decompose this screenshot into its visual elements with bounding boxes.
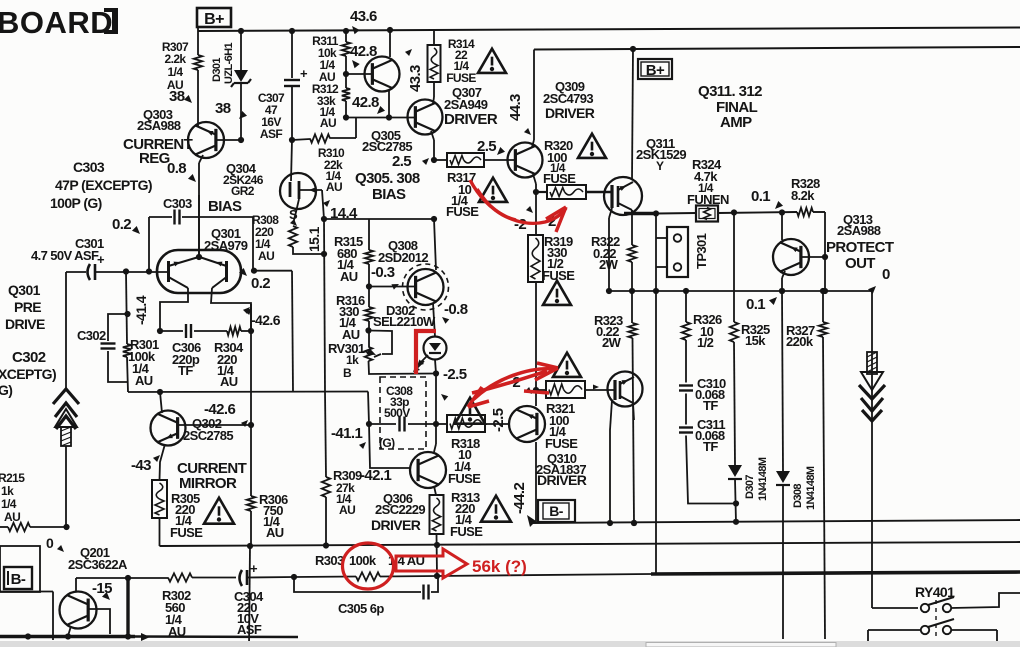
wire bottom thick rail (0, 635, 135, 639)
svg-text:REG: REG (139, 150, 170, 167)
svg-text:D301: D301 (211, 58, 223, 82)
wire Q201 base lead (88, 609, 110, 634)
warning triangle near R321 (553, 353, 581, 377)
fuse resistor R318 (boxed) (447, 415, 485, 432)
svg-text:-42.1: -42.1 (360, 467, 391, 484)
svg-text:(G): (G) (379, 436, 395, 450)
wire Q302 collector from y392 (160, 392, 162, 413)
svg-text:C305 6p: C305 6p (338, 601, 384, 616)
wire Q302 emitter to R305 (160, 444, 166, 480)
svg-text:D307: D307 (744, 475, 756, 499)
svg-text:FUSE: FUSE (170, 525, 203, 540)
svg-text:2SC2229: 2SC2229 (375, 502, 425, 517)
transistor Q302 (151, 411, 186, 446)
capacitor C302 branch (108, 314, 128, 341)
svg-text:0.2: 0.2 (251, 275, 270, 292)
hatched arrow symbol (output, down) (867, 352, 877, 374)
capacitor C310 (679, 384, 693, 386)
svg-text:R303: R303 (315, 553, 344, 568)
svg-text:2SA979: 2SA979 (204, 238, 248, 253)
relay RY401 contact 2 (921, 626, 929, 634)
diode D308 (776, 471, 790, 483)
warning triangle near R319 (543, 281, 571, 305)
svg-text:1N4148M: 1N4148M (757, 457, 769, 501)
wire TP301 stubs (656, 237, 667, 239)
svg-text:C302: C302 (12, 349, 46, 366)
red annotation arrow R317 to R320 (470, 180, 566, 223)
svg-text:FUSE: FUSE (446, 71, 476, 85)
svg-text:2SC2785: 2SC2785 (183, 428, 233, 443)
wire pot to LED node (369, 361, 436, 374)
wire y213 to R324 (657, 212, 696, 215)
wire relay 2 right (951, 629, 997, 631)
resistor R301 (123, 344, 131, 357)
red annotation elbow at D302 (416, 331, 436, 374)
red annotation arrow to R318 triangle (474, 369, 553, 399)
wire R321 row (536, 389, 546, 391)
resistor R327 (819, 322, 827, 337)
capacitor C303 (173, 210, 175, 225)
svg-text:FUSE: FUSE (542, 268, 575, 283)
wire Q309 collector to top rail (532, 140, 534, 147)
svg-text:0.1: 0.1 (746, 296, 765, 313)
wire R326 column (685, 291, 687, 322)
wire D308 column (782, 291, 783, 471)
resistor R322 (628, 245, 636, 262)
resistor R316 (365, 307, 373, 321)
wire R325 column (733, 213, 735, 323)
transistor Q308 (with dashed outline) (403, 264, 449, 310)
resistor R312 (342, 88, 350, 101)
svg-text:1k: 1k (346, 353, 359, 367)
wire Q304 drain column x325 (322, 190, 324, 219)
transistor Q306 (410, 452, 446, 488)
svg-text:2SA988: 2SA988 (137, 118, 181, 133)
svg-text:38: 38 (215, 100, 231, 117)
svg-text:TF: TF (703, 439, 718, 454)
svg-text:BIAS: BIAS (208, 198, 242, 215)
wire R323 top (631, 291, 633, 323)
svg-text:43.6: 43.6 (350, 8, 377, 25)
node B+ (top-left supply) (197, 8, 231, 27)
svg-text:AU: AU (4, 510, 20, 524)
relay RY401 contact 1 (921, 604, 929, 612)
wire output corner x872 (871, 291, 873, 608)
svg-text:2.5: 2.5 (392, 153, 411, 170)
svg-text:AU: AU (342, 327, 360, 342)
wire base row y117 to Q307 (346, 117, 414, 119)
wire Q201 collector up to feedback row (75, 578, 77, 592)
svg-text:AU: AU (220, 374, 238, 389)
resistor R323 (628, 323, 636, 338)
svg-text:DRIVER: DRIVER (545, 105, 595, 121)
svg-text:56k (?): 56k (?) (472, 557, 527, 576)
wire Q307 emitter up to R314 fuse (433, 97, 434, 104)
wire Q305 emitter down to base row (388, 90, 390, 118)
svg-text:2W: 2W (599, 257, 619, 272)
wire Q305 collector to rail (387, 27, 393, 33)
wire R327 down (823, 337, 825, 639)
wire negative feed rail y546 (160, 542, 1020, 546)
zener diode D301 (234, 70, 248, 82)
svg-text:C303: C303 (73, 159, 105, 175)
wire Q307 collector node to R317 (434, 159, 447, 161)
svg-text:TP301: TP301 (694, 233, 709, 269)
wire B+ rail top (198, 28, 1020, 32)
wire Q303 base to zener node (216, 139, 241, 141)
transistor Q304 (FET) (280, 173, 316, 209)
red annotation arrow to R321 triangle (472, 371, 547, 393)
svg-text:-44.2: -44.2 (511, 483, 528, 514)
svg-text:Y: Y (656, 159, 664, 173)
wire R309 to -rail (325, 497, 327, 546)
wire relay 2 left (868, 629, 921, 631)
svg-text:XCEPTG): XCEPTG) (0, 366, 56, 382)
svg-text:2SC3622A: 2SC3622A (68, 557, 128, 572)
transistor Q307 (408, 100, 443, 135)
wire R327 column (822, 291, 824, 322)
node B- (right) (538, 500, 575, 522)
svg-text:2SC4793: 2SC4793 (543, 91, 593, 106)
wire x251 column (250, 304, 252, 496)
wire R307 to Q303 emitter (197, 70, 199, 126)
wire y219 bias top (324, 218, 434, 220)
transistor Q305 (upper of bias pair) (365, 57, 400, 92)
wire C311 to D307 node (686, 436, 736, 504)
wire R305 to -rail (159, 518, 161, 546)
svg-text:DRIVE: DRIVE (5, 316, 45, 332)
wire D308 down (782, 485, 784, 639)
svg-text:4.7 50V ASF: 4.7 50V ASF (31, 248, 99, 263)
wire Q308 base (369, 286, 416, 288)
svg-text:42.8: 42.8 (350, 43, 377, 60)
svg-text:Q311. 312: Q311. 312 (698, 83, 762, 100)
wire R315-R316 (368, 264, 370, 307)
wire Q307 collector down (431, 131, 434, 140)
fuse resistor R321 (boxed) (546, 381, 585, 398)
svg-text:1N4148M: 1N4148M (805, 466, 817, 510)
wire C310 to C311 (685, 394, 687, 425)
wire R215 to node (30, 526, 67, 528)
svg-text:AU: AU (258, 249, 274, 263)
svg-text:Q301: Q301 (8, 282, 41, 298)
svg-text:43.3: 43.3 (407, 65, 424, 92)
resistor R315 (365, 250, 373, 264)
svg-text:FUSE: FUSE (450, 524, 483, 539)
wire R319 down to R321 node (535, 282, 537, 390)
svg-text:TF: TF (178, 363, 193, 378)
svg-text:OUT: OUT (845, 255, 875, 272)
svg-text:2.5: 2.5 (477, 138, 496, 155)
warning triangle near R318 (455, 398, 485, 424)
wire R320 to Q311 gate (586, 191, 611, 194)
fuse resistor R314 (boxed) (433, 29, 435, 45)
svg-text:-41.1: -41.1 (331, 425, 362, 442)
svg-text:AU: AU (339, 503, 355, 517)
wire input node down (65, 272, 67, 390)
wire Q303 collector row to R310 (289, 137, 295, 143)
svg-text:0.8: 0.8 (167, 160, 186, 177)
wire C308 row (369, 423, 396, 425)
wire R322 to y291 (631, 262, 633, 291)
svg-text:AU: AU (320, 116, 336, 130)
potentiometer RV301 (365, 347, 373, 361)
wire x127 column (126, 272, 127, 345)
svg-text:+: + (97, 252, 105, 267)
wire +rail second (right) (534, 47, 1020, 50)
svg-text:AU: AU (135, 373, 153, 388)
svg-text:1k: 1k (1, 484, 14, 498)
svg-text:2W: 2W (602, 335, 622, 350)
wire relay 1 to edge (951, 593, 1020, 608)
wire R310 to x356 riser (330, 137, 356, 139)
wire Q309 emitter to R320 node (533, 174, 536, 184)
svg-text:R215: R215 (0, 471, 25, 485)
wire B- rail (527, 515, 536, 527)
wire feedback row (left) (76, 577, 168, 579)
wire y331 loop (160, 330, 183, 332)
resistor R311 (342, 42, 350, 56)
dual transistor Q301 2SA979 (stadium) (157, 250, 241, 293)
diode D307 (728, 465, 742, 477)
svg-text:1/4: 1/4 (168, 65, 184, 79)
svg-text:ASF: ASF (260, 127, 282, 141)
wire x656 below to output rail (655, 291, 657, 574)
dashed box C308 (380, 377, 426, 449)
wire R302 to C304 (192, 577, 236, 579)
svg-text:PROTECT: PROTECT (826, 239, 894, 256)
svg-text:B+: B+ (204, 11, 224, 28)
wire y291 rail (609, 290, 872, 292)
fuse resistor R324 (boxed) (696, 206, 718, 222)
svg-text:C303: C303 (163, 196, 192, 211)
svg-text:FUSE: FUSE (545, 436, 578, 451)
resistor R328 (797, 208, 813, 216)
test point connector TP301 (667, 227, 688, 277)
wire Q306 emitter to R313 (434, 486, 436, 495)
resistor R308 (289, 226, 297, 247)
node B- (left) (4, 567, 32, 589)
connector box around B- (0, 546, 40, 592)
transistor Q311 (MOSFET) (604, 177, 642, 215)
svg-text:AMP: AMP (720, 114, 752, 131)
fuse resistor R317 (boxed) (447, 153, 484, 167)
wire y392 row (128, 391, 368, 394)
red annotation circle around 100k (343, 543, 394, 589)
resistor R302 (168, 573, 192, 581)
relay dashed link (935, 600, 937, 636)
wire Q310 column (535, 390, 537, 406)
wire R317 to Q309 base (484, 159, 516, 161)
capacitor C301 (polarized) (88, 264, 91, 280)
wire x369 down (368, 219, 370, 250)
capacitor C305 loop (294, 577, 421, 592)
wire R325 to D307 (734, 342, 735, 465)
svg-text:FUSE: FUSE (446, 204, 479, 219)
svg-text:B-: B- (11, 571, 26, 588)
svg-text:AU: AU (340, 269, 358, 284)
wire x368 to C308 row (368, 392, 369, 425)
svg-text:AU: AU (326, 180, 342, 194)
wire Q302 base to x251 (177, 424, 251, 426)
svg-text:AU: AU (266, 525, 284, 540)
wire Q311 second lead down (609, 208, 612, 218)
capacitor C308 (398, 417, 400, 432)
capacitor C307 (electrolytic) (284, 79, 300, 81)
svg-text:42.8: 42.8 (352, 94, 379, 111)
svg-text:47P (EXCEPTG): 47P (EXCEPTG) (55, 177, 152, 193)
wire LED to -2.5 node (435, 360, 436, 374)
wire node down to C308 row (435, 374, 437, 425)
warning triangle near R317 (479, 178, 507, 202)
wire R311-R312 node (345, 56, 347, 88)
svg-text:15.1: 15.1 (306, 226, 322, 252)
transistor Q310 (509, 406, 545, 442)
wire output rail thick (651, 572, 1020, 574)
svg-text:TF: TF (703, 398, 718, 413)
svg-text:AU: AU (168, 624, 186, 639)
wire R316 to pot (368, 321, 370, 347)
svg-text:C302: C302 (77, 328, 106, 343)
svg-text:B: B (343, 366, 352, 380)
svg-text:B-: B- (549, 503, 564, 519)
svg-text:220k: 220k (786, 334, 814, 349)
svg-text:Q305. 308: Q305. 308 (355, 170, 420, 187)
wire R322 top (631, 214, 633, 246)
wire stadium left emitter to x160 (160, 288, 188, 331)
wire R312 to lower node (345, 101, 347, 118)
capacitor C311 (679, 426, 693, 428)
hatched arrow symbol (signal source, up) (53, 389, 79, 404)
fuse resistor R319 (boxed) (535, 192, 537, 235)
wire R303 to R313 node (380, 575, 437, 578)
bottom cut-off marks (256, 642, 274, 644)
svg-text:-2.5: -2.5 (443, 366, 467, 383)
wire R318 right (485, 423, 510, 425)
svg-text:2SD2012: 2SD2012 (378, 250, 428, 265)
node B+ (right supply) (630, 46, 636, 52)
wire R323 through Q312 to B- rail (633, 338, 635, 523)
wire Q303 collector down to Q301 (199, 155, 203, 163)
svg-text:38: 38 (169, 88, 185, 105)
svg-text:0: 0 (882, 266, 890, 283)
transistor Q312 (MOSFET final) (608, 372, 643, 407)
wire B+ rail to zener D301 (238, 28, 244, 34)
svg-text:UZL-6H1: UZL-6H1 (223, 42, 235, 84)
capacitor C306 (185, 324, 187, 338)
wire Q313 collector (781, 213, 783, 241)
wire x370 to Q306 base (369, 424, 410, 468)
svg-text:100k: 100k (349, 553, 377, 568)
svg-text:-2.5: -2.5 (490, 408, 507, 432)
wire down to input node (148, 217, 150, 272)
wire D307 to B- rail (735, 479, 736, 523)
resistor R325 (730, 322, 738, 342)
svg-text:FUSE: FUSE (543, 171, 576, 186)
warning triangle near R314 (478, 49, 506, 73)
svg-text:2.2k: 2.2k (165, 52, 187, 66)
wire thick vertical x128 (126, 578, 129, 637)
svg-text:B+: B+ (646, 62, 665, 79)
wire from B+ box down (197, 27, 199, 55)
svg-text:-15: -15 (92, 580, 112, 597)
svg-text:DRIVER: DRIVER (537, 472, 587, 488)
svg-text:BIAS: BIAS (372, 186, 406, 203)
wire R324 to R328 row (718, 212, 797, 213)
wire Q304 source to R308 (296, 199, 299, 212)
wire R328 to corner x825 (813, 211, 825, 213)
svg-text:G): G) (0, 382, 12, 398)
svg-text:2SA988: 2SA988 (837, 223, 881, 238)
wire output to relay (872, 607, 918, 609)
svg-text:D308: D308 (792, 484, 804, 508)
wire zener to Q303 base node (240, 84, 242, 140)
svg-text:FUNEN: FUNEN (687, 192, 729, 207)
transistor Q313 (773, 239, 809, 275)
svg-text:44.3: 44.3 (507, 94, 524, 121)
wire C304 to node x294 (247, 576, 294, 579)
wire x436 from node down to Q308 (434, 219, 436, 270)
wire x656 column (655, 214, 657, 292)
svg-text:0.2: 0.2 (112, 216, 131, 233)
svg-text:0.1: 0.1 (751, 188, 770, 205)
wire rail to C307 (289, 28, 295, 34)
viewer bottom band (0, 641, 1020, 647)
transistor Q201 (60, 592, 97, 629)
svg-text:DRIVER: DRIVER (371, 517, 421, 533)
svg-text:SEL2210W: SEL2210W (373, 314, 436, 329)
wire Q306 collector up (434, 444, 436, 452)
svg-text:8.2k: 8.2k (791, 188, 815, 203)
fuse resistor R305 (boxed) (152, 480, 167, 518)
resistor R307 (194, 55, 202, 70)
svg-text:MIRROR: MIRROR (179, 475, 237, 492)
resistor R309 27k (322, 477, 330, 497)
wire C301 to stadium (95, 271, 167, 273)
svg-text:-0.3: -0.3 (371, 264, 395, 281)
resistor R303 100k (356, 572, 380, 580)
LED D302 (424, 337, 447, 360)
wire B- connector stub (0, 591, 53, 593)
fuse resistor R320 (boxed) (536, 191, 547, 193)
wire R308 to y254 (293, 247, 324, 254)
svg-text:100P (G): 100P (G) (50, 195, 102, 211)
wire R326 to C310 (685, 340, 687, 383)
warning triangle near R320 (578, 134, 606, 158)
wire R313 to -rail and feedback (436, 534, 439, 576)
resistor R326 (682, 322, 690, 340)
wire rail to R311 (343, 28, 349, 34)
wire C303 row (149, 216, 172, 218)
svg-text:2SA949: 2SA949 (444, 97, 488, 112)
wire Q201 emitter to bottom rail (68, 626, 71, 636)
wire base Q305 upper (346, 73, 371, 75)
svg-text:+: + (300, 66, 308, 81)
svg-text:15k: 15k (745, 333, 766, 348)
wire B+ to Q311 drain (632, 49, 633, 180)
svg-text:-41.4: -41.4 (133, 295, 149, 325)
wire Q312 lower lead to B- rail (633, 403, 634, 420)
resistor R310 (310, 134, 330, 142)
svg-text:BOARD: BOARD (0, 5, 113, 40)
resistor R306 (247, 496, 255, 511)
svg-text:1/2: 1/2 (697, 335, 714, 350)
wire R321 to Q312 base (585, 389, 614, 391)
wire R301 to y392 (127, 357, 128, 392)
wire Q308 emitter to LED (433, 303, 435, 337)
wire right end of C303 row down to stadium output (252, 217, 254, 271)
transistor Q303 (188, 122, 224, 158)
